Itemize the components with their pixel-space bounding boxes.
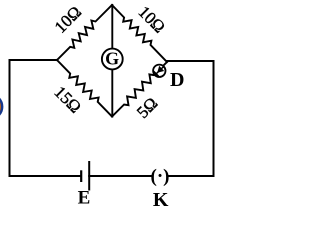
svg-text:(·): (·) bbox=[151, 166, 170, 187]
svg-text:D: D bbox=[170, 69, 184, 91]
svg-text:K: K bbox=[153, 189, 169, 211]
svg-text:G: G bbox=[105, 49, 119, 69]
svg-text:E: E bbox=[78, 188, 91, 209]
